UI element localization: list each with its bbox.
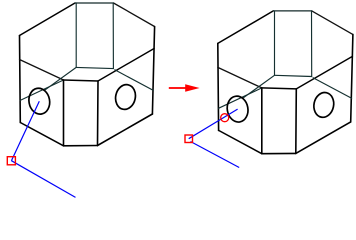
wire: left vertical silhouette edge [217,43,220,130]
grip rubber-band line upper (left figure) [11,101,39,161]
wire: left face front edge A [20,60,64,81]
wire: left vertical silhouette edge [19,36,22,123]
grip square (right figure) [185,135,193,143]
wire: top horizontal edge [75,2,114,4]
wire: front bottom edge [64,145,98,147]
wire: hidden edge B to hole [243,75,275,98]
left solid (before) [20,3,155,146]
wire: front face top edge [64,80,99,81]
wire: right face top diagonal edge [98,49,154,82]
wire: front bottom edge [262,152,296,154]
grip rubber-band line lower (right figure) [191,142,240,168]
wire: left top slant edge [20,3,76,36]
wire: top quad right vertical edge [112,3,114,69]
wire: front face right vertical edge [97,81,100,146]
wire: front face left vertical edge [261,88,263,154]
hole ellipse on right face [312,91,336,120]
grip rubber-band line upper (right figure) [189,109,238,139]
wire: bottom right slant edge [98,114,153,146]
wire: right vertical silhouette edge [351,34,353,122]
wire: top horizontal edge [273,10,312,12]
wire: front face left vertical edge [63,80,65,146]
subobject marker circle (right figure) [221,114,229,122]
wire: top quad right vertical edge [311,11,313,77]
hole ellipse on right face [113,83,137,112]
wire: top quad left vertical edge [274,11,276,75]
wire: front face right vertical edge [295,89,298,153]
wire: left face front edge A [218,67,262,88]
hole ellipse on left face [225,95,250,124]
grip square (left figure) [7,157,15,165]
wire: bottom left slant edge [20,123,63,146]
wire: right vertical silhouette edge [152,27,154,115]
wire: front face top edge [262,88,297,89]
grip rubber-band line lower (left figure) [11,161,75,198]
wire: right face hidden diagonal edge [115,70,154,91]
wire: right top slant edge [114,3,155,27]
wire: top quad bottom edge [76,67,113,68]
wire: right top slant edge [312,11,353,35]
wire: bottom left slant edge [219,130,262,153]
wire: right face top diagonal edge [296,56,352,89]
wire: bottom right slant edge [296,122,351,153]
wire: right face hidden diagonal edge [313,78,352,99]
wire: left face lower front edge A2 [219,88,262,108]
wire: left face lower front edge A2 [20,80,63,100]
wire: top quad bottom edge [275,75,312,76]
hole ellipse on left face [27,87,52,116]
wire: left top slant edge [218,11,273,44]
red transition arrow [169,84,200,92]
right solid (after) [218,11,353,154]
wire: hidden edge B to hole [45,67,77,90]
wire: top quad left vertical edge [75,3,77,67]
